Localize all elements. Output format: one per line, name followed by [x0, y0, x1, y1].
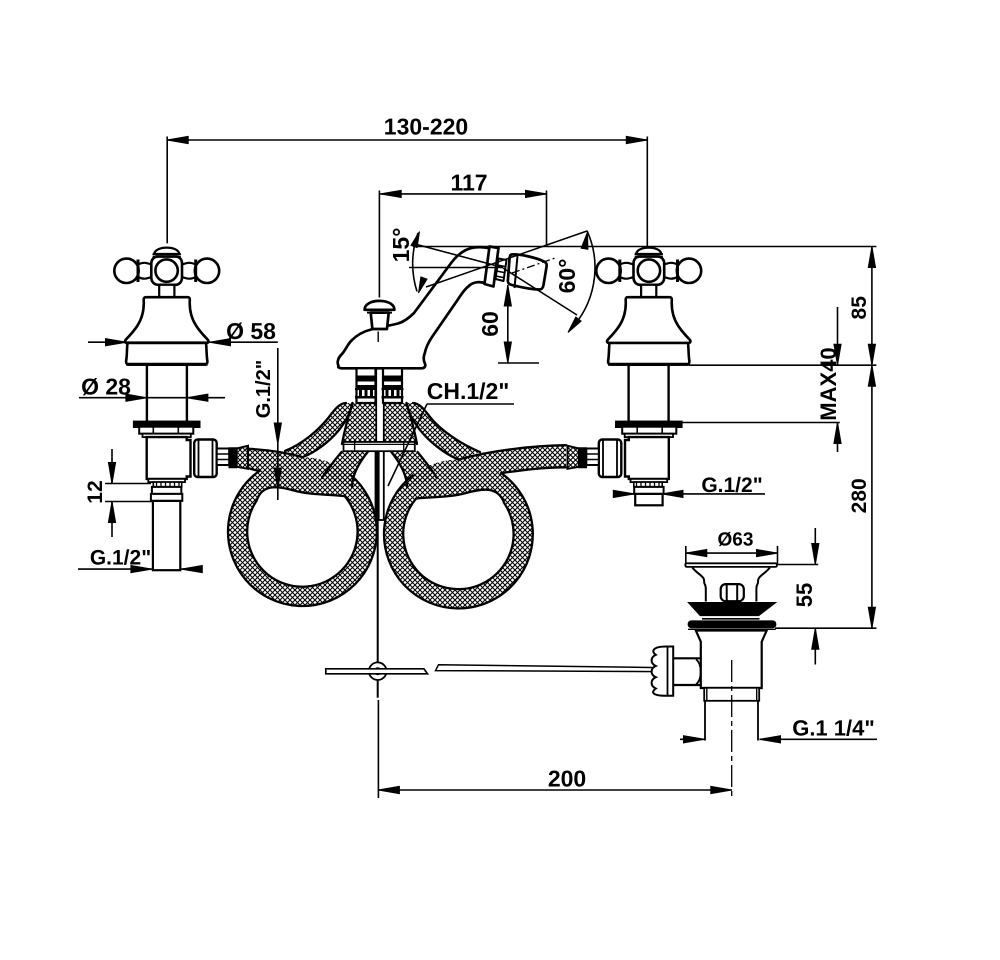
hose end cone: [237, 446, 248, 469]
drain tail pipe: [705, 701, 758, 741]
bell skirt: [126, 343, 207, 365]
stem O28: [147, 365, 187, 422]
deck reference line: [689, 364, 876, 366]
left tail rings: [152, 487, 181, 494]
drain tail threaded band: [704, 688, 759, 701]
hose left loop: [228, 457, 377, 606]
drain lower ring black: [688, 621, 775, 628]
svg-text:280: 280: [848, 478, 871, 513]
svg-text:200: 200: [548, 765, 586, 791]
leader G.1/2 right inlet: [615, 493, 634, 495]
hose strand into left loop: [322, 452, 368, 488]
handle left ball: [114, 259, 138, 283]
svg-text:15°: 15°: [388, 228, 414, 263]
dim O63: [686, 552, 778, 554]
pop-up rod lower wire: [377, 520, 379, 663]
lever ball joint: [369, 662, 387, 680]
drain flange disc: [685, 563, 777, 567]
hose right shank column: [383, 403, 417, 444]
dim 60: [507, 285, 509, 363]
drain seal cone black: [689, 603, 775, 616]
hose ferrule: [229, 448, 237, 468]
svg-text:G.1 1/4": G.1 1/4": [792, 715, 875, 740]
svg-text:85: 85: [848, 296, 871, 320]
drain side tube: [673, 658, 701, 685]
svg-text:130-220: 130-220: [384, 113, 468, 139]
handle neck: [641, 285, 656, 297]
body bottom step: [148, 479, 185, 482]
aerator head: [508, 254, 547, 289]
hose band run to right shank: [407, 403, 481, 460]
bell: [125, 297, 208, 343]
dim 85: [871, 247, 873, 366]
outlet nut: [194, 440, 217, 478]
hose band run to left shank: [285, 403, 353, 457]
deck flange black: [616, 422, 681, 427]
dim 117: [380, 193, 546, 195]
outlet ribs: [586, 449, 599, 466]
svg-text:55: 55: [792, 583, 817, 607]
top reference line: [413, 246, 876, 248]
hose left shank column: [342, 403, 377, 444]
valve body: [625, 437, 669, 479]
svg-text:Ø 28: Ø 28: [81, 373, 131, 399]
drain plug knob: [721, 584, 744, 601]
svg-text:Ø63: Ø63: [718, 529, 754, 550]
collar: [139, 427, 193, 434]
hose left run: [247, 449, 302, 471]
hose right loop: [384, 460, 533, 609]
drain body: [696, 631, 767, 689]
svg-text:CH.1/2": CH.1/2": [427, 378, 510, 404]
svg-text:117: 117: [450, 169, 487, 195]
deck flange black: [134, 422, 199, 427]
dim 130-220: [167, 139, 647, 141]
right tail rings: [634, 487, 663, 494]
drain neck: [692, 568, 770, 602]
svg-text:G.1/2": G.1/2": [253, 360, 275, 418]
dim MAX40: [837, 307, 839, 365]
body bottom step: [631, 479, 668, 482]
shank threads: [357, 376, 376, 382]
leader G.1/2 left inlet: [78, 568, 152, 570]
handle right ball: [596, 259, 620, 283]
right inlet tail pipe: [635, 494, 662, 505]
bell: [607, 297, 690, 343]
flange reference line: [682, 422, 840, 424]
dim G.1 1/4: [680, 738, 705, 740]
svg-text:Ø 58: Ø 58: [226, 318, 276, 344]
svg-text:60: 60: [477, 311, 503, 337]
bell skirt: [608, 343, 689, 365]
bidet spout body: [338, 247, 491, 368]
hose right run: [458, 445, 566, 473]
angle 15: [409, 267, 503, 269]
pop-up rod dark bar: [375, 452, 380, 520]
mounting bracket: [344, 442, 415, 451]
svg-text:60°: 60°: [554, 259, 580, 294]
horizontal rod to drain: [436, 665, 659, 672]
handle right ball: [195, 259, 219, 283]
left inlet tail pipe: [153, 501, 180, 570]
drain knurled nut: [652, 647, 674, 696]
cross handle hub: [634, 257, 665, 285]
dim O28: [79, 397, 225, 399]
dim 280: [871, 365, 873, 628]
dim O58: [88, 341, 278, 343]
lever bar: [326, 669, 428, 674]
valve body: [147, 437, 191, 479]
cross handle cap: [154, 248, 180, 254]
cross handle cap: [636, 248, 662, 254]
aerator axis dashes: [512, 258, 555, 273]
dim 200: [378, 789, 731, 791]
hose strand into right loop: [391, 452, 437, 488]
svg-text:12: 12: [84, 480, 107, 503]
dim 12: [111, 449, 113, 484]
handle left ball: [677, 259, 701, 283]
leader G.1/2 hose: [277, 348, 279, 500]
right shank: [383, 368, 402, 403]
pop-up knob: [365, 301, 395, 310]
drain gap line: [702, 618, 760, 620]
pop-up rod upper: [376, 367, 384, 520]
angle 60: [426, 231, 587, 287]
cross handle hub: [151, 257, 182, 285]
collar: [622, 427, 676, 434]
threaded collar: [153, 482, 181, 487]
drain center line: [731, 660, 733, 798]
stem O28: [629, 365, 669, 422]
hose ferrule: [579, 448, 587, 468]
svg-text:MAX40: MAX40: [816, 347, 841, 420]
dim 55: [814, 528, 816, 565]
outlet nut: [599, 440, 622, 478]
left shank: [357, 368, 376, 403]
hose end cone: [568, 446, 579, 469]
spout end flange: [485, 247, 499, 287]
svg-text:G.1/2": G.1/2": [90, 546, 151, 569]
svg-text:G.1/2": G.1/2": [701, 474, 762, 497]
ball joint rings: [496, 259, 507, 282]
handle neck: [159, 285, 174, 297]
threaded collar: [634, 482, 662, 487]
leader CH.1/2: [427, 403, 514, 405]
outlet ribs: [217, 449, 230, 466]
